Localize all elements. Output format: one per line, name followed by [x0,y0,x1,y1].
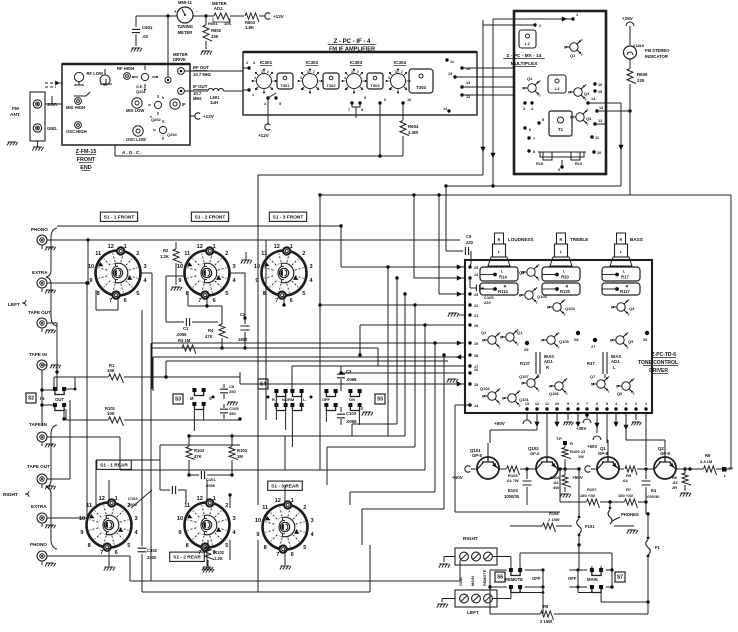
MPX pin 5 [537,121,540,124]
svg-text:S5: S5 [377,397,383,403]
svg-text:+50V: +50V [452,475,464,480]
svg-text:EXTRA: EXTRA [32,270,48,275]
svg-text:ADJ.: ADJ. [214,6,224,11]
wire loop E [424,325,426,470]
svg-text:10: 10 [597,151,601,155]
wire pin10 down [556,413,558,425]
svg-text:2 15W: 2 15W [540,619,552,624]
svg-text:ANT.: ANT. [10,112,21,118]
svg-text:5: 5 [606,402,608,406]
wire bus pin16 [341,372,466,374]
svg-text:2: 2 [401,70,403,74]
label S1-2 REAR [170,552,205,561]
tone bottom pin 1 [644,407,647,410]
wire switch contact drops [193,409,195,431]
svg-text:15: 15 [474,383,478,387]
svg-text:9: 9 [80,530,83,536]
svg-text:c: c [519,389,521,393]
capacitor C105 220 tone [476,285,479,292]
svg-text:LEFT: LEFT [8,302,20,308]
wire bus pin23 [438,195,440,294]
brace LEFT channel [46,228,57,326]
IF pins 16 15 13 12 right [460,66,463,69]
svg-text:2: 2 [267,70,269,74]
wire MPX pin13 to indicator leg [597,110,630,112]
svg-text:TAPE IN: TAPE IN [29,352,47,357]
svg-text:1.2K: 1.2K [160,254,169,259]
svg-text:12: 12 [99,496,105,502]
svg-text:F1: F1 [655,545,661,550]
svg-text:c: c [585,83,587,87]
transistor Q5 [616,336,624,344]
svg-text:15: 15 [448,72,452,76]
wire loop D [414,305,416,447]
MPX pin 9 [560,165,563,168]
wire tone pin3 to Q2 base [625,413,627,440]
tone pin 19 [468,341,471,344]
svg-text:10: 10 [555,402,559,406]
svg-text:c: c [499,331,501,335]
svg-text:12: 12 [466,95,470,99]
wire remote contacts to strips [493,556,511,558]
svg-text:7: 7 [348,108,350,112]
wire bus pin25 [340,226,342,267]
resistor R2 1.2K [173,249,182,263]
label S1-3 FRONT [269,212,306,221]
svg-text:GP-8: GP-8 [598,451,608,456]
svg-text:C1: C1 [183,326,189,331]
tone bottom pin 4 [614,407,617,410]
svg-text:S6: S6 [497,575,503,581]
resistor R603 1.8K [230,15,244,17]
svg-text:13: 13 [525,402,529,406]
svg-text:+12V: +12V [203,114,215,119]
transformer T301 [277,73,293,89]
svg-text:12: 12 [108,244,114,250]
svg-text:3: 3 [232,516,235,522]
svg-text:11: 11 [262,505,268,511]
svg-text:C103: C103 [346,411,357,416]
resistor R5 .64 [619,468,624,470]
svg-text:8: 8 [88,543,91,549]
svg-text:Z - PC - IF - 4: Z - PC - IF - 4 [334,39,371,45]
svg-text:28: 28 [574,337,579,342]
svg-text:e: e [499,401,501,405]
svg-text:R103: R103 [237,448,248,453]
svg-text:c: c [538,263,540,267]
svg-text:e: e [587,122,589,126]
svg-text:2: 2 [302,251,305,257]
wire loop C [404,294,406,436]
tone pin 15 [468,382,471,385]
svg-text:R9: R9 [705,453,711,458]
svg-text:7: 7 [405,87,407,91]
svg-text:M55-11: M55-11 [178,0,193,5]
module Z-PC-TD-6 tone control box [465,260,652,413]
svg-text:BASS: BASS [630,237,643,242]
wire S2 out down [63,405,65,419]
svg-text:3: 3 [253,61,255,65]
svg-text:3: 3 [351,70,353,74]
svg-text:b: b [500,336,502,340]
svg-text:12: 12 [275,498,281,504]
wire C5 220 into pin25 [446,250,463,252]
svg-text:GP-8: GP-8 [530,451,540,456]
wire bus y195 [320,194,630,196]
wire bus pin20 [360,324,466,326]
coil L601 1uH [208,88,224,91]
transistor Q105 [547,336,555,344]
svg-text:PHONES: PHONES [621,512,639,517]
svg-text:ADJ.: ADJ. [611,359,621,364]
svg-text:5: 5 [225,291,228,297]
svg-text:10: 10 [407,98,411,102]
svg-text:IC301: IC301 [260,60,273,65]
resistor R604 3.3M [402,103,404,120]
rotary switch S1-2 rear [185,503,230,548]
svg-text:e: e [517,342,519,346]
svg-text:33K: 33K [211,34,219,39]
coil OSC LOW [133,126,143,136]
wire IF pin6 down to AGC [379,103,381,156]
wire MPX pin2 feed vertical [483,24,535,26]
svg-text:9: 9 [558,168,560,172]
MPX pin 6 [523,126,526,129]
svg-text:7: 7 [198,298,201,304]
resistor R601 10K meter adj [193,15,214,17]
wire bus extra [47,282,89,284]
svg-text:T.P.: T.P. [556,436,562,441]
svg-text:220: 220 [466,240,474,245]
trimmer RF LOW [74,72,83,81]
capacitor C105 350 [223,404,225,408]
svg-text:Q107: Q107 [519,374,530,379]
resistor R1 10K [54,376,108,378]
potentiometer TREBLE R20/R120 [557,233,566,244]
svg-text:2: 2 [136,251,139,257]
svg-text:LEFT: LEFT [467,610,479,616]
capacitor C3 .0068 [340,366,342,372]
wire IF pin16 to multiplex [462,67,514,69]
transistor Q204 [159,126,166,133]
svg-text:e: e [608,389,610,393]
svg-text:END: END [80,165,91,171]
svg-text:e: e [519,403,521,407]
wire bottom long bus 592 [142,591,370,593]
svg-text:3: 3 [143,264,146,270]
ground pin2 [635,413,637,420]
svg-text:Q202: Q202 [151,117,162,122]
wire right jacks to switches [47,478,71,480]
wire bus pin17 [292,365,466,367]
svg-text:8: 8 [186,543,189,549]
MPX pins 3 4 [523,101,526,104]
tone bottom pin 13 [525,407,528,410]
svg-text:7: 7 [533,137,535,141]
svg-text:e: e [627,345,629,349]
transistor Q201 [141,73,148,80]
svg-text:5: 5 [303,545,306,551]
trimmer MIX HIGH [75,98,82,105]
svg-text:350: 350 [229,411,236,416]
svg-text:2: 2 [313,70,315,74]
ground pin21 [459,314,466,316]
wire rear resistor top bus [189,435,285,437]
svg-text:R2: R2 [163,248,169,253]
svg-text:10: 10 [79,516,85,522]
svg-text:c: c [633,377,635,381]
IF pins 4 5 with +12V feed [266,96,269,99]
wire meter drive [167,16,169,64]
svg-text:R3 1M: R3 1M [178,338,191,343]
MPX pin 8 [527,149,530,152]
svg-text:R109: R109 [570,449,580,454]
svg-text:NORM: NORM [282,397,295,402]
IF pin 11 [445,58,448,61]
wire pin1 down [645,413,647,466]
svg-text:TUNING: TUNING [177,24,193,29]
svg-text:DRIVER: DRIVER [649,368,668,374]
svg-text:S7: S7 [617,575,623,581]
transistor Q6 [622,382,630,390]
svg-text:TONE CONTROL: TONE CONTROL [638,360,678,366]
svg-text:7: 7 [317,87,319,91]
svg-text:1uH: 1uH [210,100,218,105]
svg-text:e: e [499,345,501,349]
wire left risers [151,343,153,389]
svg-text:Q1: Q1 [517,330,523,335]
svg-text:+25V: +25V [622,16,634,21]
resistor R9 3.3 1M [704,466,717,475]
svg-text:3.3 1M: 3.3 1M [700,459,713,464]
svg-text:L: L [613,365,616,370]
wire rear bottom drops [129,556,131,581]
node 28 [576,331,580,335]
tone pin 18 [468,353,471,356]
label S1-2 FRONT [191,212,228,221]
tone bottom pin 8 [576,407,579,410]
svg-text:1: 1 [124,244,127,250]
svg-text:3: 3 [523,107,525,111]
svg-text:Q103: Q103 [537,294,548,299]
svg-text:5: 5 [136,291,139,297]
svg-text:11: 11 [184,251,190,257]
svg-text:b: b [564,46,566,50]
wire C5 drop [445,186,447,251]
coil L3 [548,75,566,93]
svg-text:1000/30: 1000/30 [504,494,520,499]
svg-text:R: R [570,441,573,446]
svg-text:8: 8 [264,545,267,551]
capacitor C101 .0056 [189,474,199,476]
meter drive terminal [165,77,171,83]
svg-text:3: 3 [395,70,397,74]
svg-text:.0068: .0068 [346,419,357,424]
svg-text:R37: R37 [587,361,595,366]
tone bottom pin 12 [535,407,538,410]
svg-text:MULTIPLEX: MULTIPLEX [511,61,539,67]
resistor R7 180 1/2W [625,499,638,508]
resistor R105 .64 7W [499,468,506,470]
resistor R107 180 1/2W [560,501,586,503]
wire pin8 down [577,413,579,425]
svg-text:REMOTE: REMOTE [483,569,487,586]
svg-text:R7: R7 [626,487,632,492]
svg-text:S2: S2 [28,396,34,402]
svg-text:MHz: MHz [193,96,202,101]
svg-text:c: c [566,377,568,381]
transformer T1 [549,111,572,136]
svg-text:.64: .64 [622,478,628,483]
svg-text:OSC.HIGH: OSC.HIGH [66,129,87,134]
tone pin 21 [468,313,471,316]
svg-text:2: 2 [225,503,228,509]
svg-text:7: 7 [271,87,273,91]
module Z-FM-15 front end box [62,64,190,145]
svg-text:R14: R14 [499,275,507,280]
svg-text:4W: 4W [553,485,559,490]
svg-text:1: 1 [291,498,294,504]
svg-text:Z-PC-TD-6: Z-PC-TD-6 [652,352,677,358]
tuning meter M55-11 [177,7,193,23]
svg-text:R: R [626,285,629,289]
svg-text:INDICATOR: INDICATOR [645,54,668,59]
wire R8 node [577,543,580,546]
svg-text:Q6: Q6 [617,391,623,396]
transformer T302 [323,73,339,89]
wire bus y186 [446,185,621,187]
svg-text:180 ½W: 180 ½W [580,493,595,498]
svg-text:2R: 2R [672,485,677,490]
svg-text:R605: R605 [637,72,648,77]
svg-text:5: 5 [346,87,348,91]
wire IF pin12 to multiplex [462,94,514,96]
svg-text:10: 10 [177,516,183,522]
label S1-3 REAR [268,481,303,490]
svg-text:e: e [539,93,541,97]
wire tape in left [42,364,47,366]
svg-text:2: 2 [303,505,306,511]
resistor R4 47K [219,324,228,338]
terminal strip LEFT speakers [455,590,497,607]
svg-text:T302: T302 [326,83,336,88]
svg-text:e: e [564,312,566,316]
svg-text:3: 3 [625,402,627,406]
transistor Q103 [525,291,533,299]
tone bottom pin 7 [585,407,588,410]
svg-text:MAIN: MAIN [587,577,598,582]
svg-text:27: 27 [591,344,596,349]
svg-text:10: 10 [177,264,183,270]
svg-text:S1 - 1 REAR: S1 - 1 REAR [100,463,128,469]
svg-text:IF OUT: IF OUT [193,84,208,89]
svg-text:c: c [587,108,589,112]
transistor Q104 [553,303,561,311]
wire bus pin24 [413,195,415,278]
svg-text:b: b [610,339,612,343]
svg-text:OFF: OFF [322,397,331,402]
transistor Q106 [555,382,563,390]
transistor Q101 GP-8 output [477,457,499,479]
svg-text:2: 2 [357,70,359,74]
svg-text:3: 3 [232,264,235,270]
svg-text:11: 11 [184,503,190,509]
MPX pin 2 [533,23,536,26]
wire loop F [434,343,436,492]
svg-text:10: 10 [254,264,260,270]
svg-text:13: 13 [599,106,603,110]
rotary switch S1-3 rear [263,505,308,550]
svg-text:3: 3 [307,70,309,74]
svg-text:e: e [558,345,560,349]
svg-text:5: 5 [279,102,281,106]
rotary switch S1-2 front [185,251,230,296]
svg-text:9: 9 [178,278,181,284]
svg-text:C101: C101 [206,477,216,482]
ground S1-2 rear [206,548,208,566]
svg-text:T1: T1 [558,127,564,132]
svg-text:1: 1 [213,244,216,250]
capacitor C102 1800 [160,489,170,491]
transistor Q102 [488,392,496,400]
wire loop G [443,355,445,509]
module Z-PC-MX-14 multiplex box [514,11,606,174]
svg-text:S1 - 2 FRONT: S1 - 2 FRONT [195,215,226,221]
capacitor C5 350 [223,384,225,388]
svg-text:IC304: IC304 [394,60,407,65]
svg-text:b: b [541,339,543,343]
svg-text:R107: R107 [587,487,597,492]
svg-text:GND.: GND. [47,126,57,131]
svg-text:9: 9 [256,532,259,538]
tone bottom pin 2 [634,407,637,410]
svg-text:16: 16 [598,83,602,87]
svg-text:b: b [521,382,523,386]
tone bottom pin 11 [545,407,548,410]
tone bottom pin 3 [624,407,627,410]
svg-text:3: 3 [309,264,312,270]
wire E4 node down [645,502,647,514]
fuse F1 [646,540,651,555]
svg-text:+: + [174,9,177,14]
resistor R6 .82 2R [683,467,686,470]
capacitor E4 1000/30 [644,467,647,470]
wire pin3 down [625,413,627,440]
tone pin 16 [468,371,471,374]
svg-text:Q106: Q106 [549,391,560,396]
svg-text:c: c [581,38,583,42]
svg-text:S3: S3 [175,397,181,403]
capacitor C601 .02 [135,16,137,27]
wire x87 extra drop [86,283,88,518]
coil L2 [519,30,536,48]
svg-text:23: 23 [581,450,585,454]
wire rear switch links [108,480,110,502]
svg-text:.64 7W: .64 7W [506,478,519,483]
resistor R103 1M [231,436,233,446]
wire antenna twin lead (dashed) [45,82,62,84]
svg-text:6: 6 [596,402,598,406]
tone pin 14 [468,403,471,406]
wire IF pin15 to multiplex [455,76,514,78]
jack IF OUT 10.7MHz [178,88,185,95]
svg-text:PHONO: PHONO [30,542,47,547]
svg-text:L.: L. [303,397,307,402]
ground S1-3 left [241,260,252,264]
svg-text:R604: R604 [408,124,419,129]
svg-text:26: 26 [643,337,648,342]
resistor R101 10K [66,419,108,421]
